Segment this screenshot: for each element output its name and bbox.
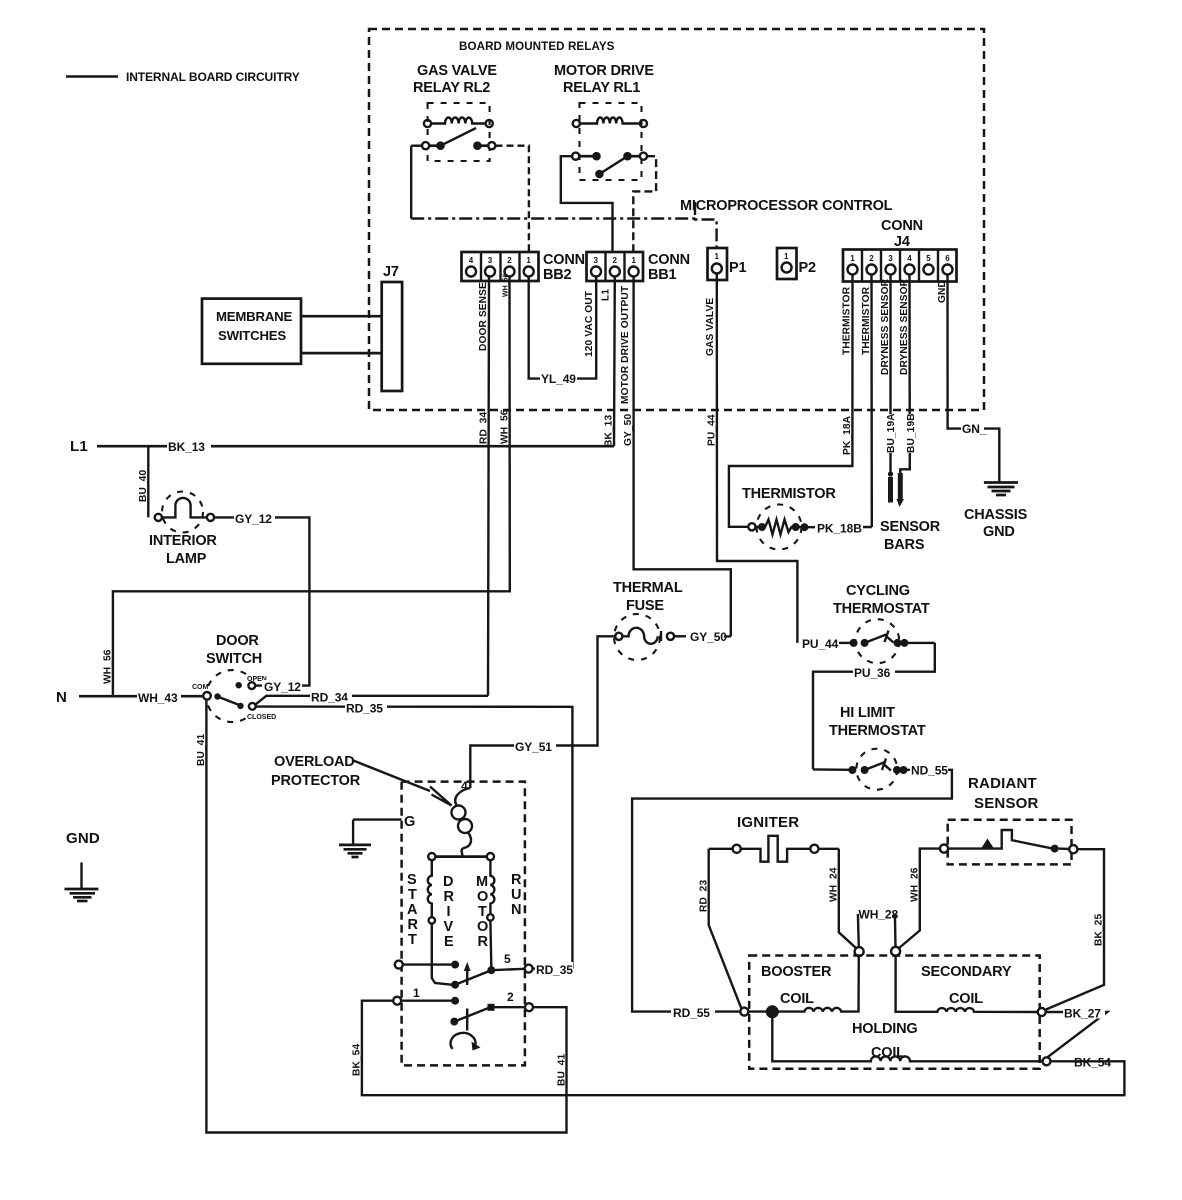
svg-text:BU_19A: BU_19A	[886, 413, 897, 453]
svg-text:PU_36: PU_36	[854, 666, 891, 680]
svg-text:4: 4	[907, 254, 912, 263]
connector P1	[708, 248, 747, 280]
svg-text:GY_12: GY_12	[235, 512, 272, 526]
wire label BU_19A rotated	[884, 413, 897, 453]
gas valve input terminal	[740, 1008, 748, 1016]
wire BK_54 motor switch 1 to holding coil	[362, 1001, 1125, 1095]
label CYCLING THERMOSTAT	[833, 583, 930, 617]
wire label RD_35 at motor	[535, 962, 573, 977]
svg-text:HI LIMIT: HI LIMIT	[840, 705, 895, 721]
holding coil	[772, 1018, 1042, 1061]
svg-text:DOOR SENSE: DOOR SENSE	[478, 282, 489, 351]
label CHASSIS GND	[964, 507, 1028, 540]
svg-text:4: 4	[469, 256, 474, 265]
svg-text:5: 5	[504, 952, 511, 966]
svg-text:6: 6	[945, 254, 950, 263]
wire WH_24 igniter to coil junction A	[839, 849, 857, 949]
svg-text:WH_28: WH_28	[859, 908, 899, 922]
wire ND_55 to RD_55 long run	[632, 770, 952, 1012]
motor dashed box	[402, 782, 525, 1066]
relay RL2 contact switch	[422, 128, 495, 150]
wire YL_49 RL2 right contact down to CONN BB2 pin 1	[496, 146, 529, 252]
svg-text:SWITCH: SWITCH	[206, 651, 262, 667]
svg-text:GY_50: GY_50	[690, 630, 727, 644]
svg-text:BK_27: BK_27	[1064, 1007, 1101, 1021]
svg-text:BU_19B: BU_19B	[906, 413, 917, 453]
igniter element	[709, 836, 839, 862]
interior lamp	[155, 492, 214, 533]
wire GY_51 fuse to overload protector	[470, 636, 615, 788]
chassis ground symbol	[984, 483, 1018, 496]
svg-text:BK_54: BK_54	[1074, 1056, 1111, 1070]
svg-text:1: 1	[526, 256, 531, 265]
wire PK_18B J4 pin2 down to thermistor right	[870, 274, 873, 527]
wire label BK_27	[1063, 1006, 1105, 1021]
wire N line WH_43 to door switch COM	[79, 695, 203, 698]
svg-text:GAS VALVE: GAS VALVE	[417, 63, 497, 79]
svg-text:BOOSTER: BOOSTER	[761, 964, 832, 980]
svg-text:WH_56: WH_56	[103, 649, 114, 684]
ground symbol at G	[339, 845, 371, 857]
svg-text:CHASSIS: CHASSIS	[964, 507, 1028, 523]
svg-text:MOTOR DRIVE OUTPUT: MOTOR DRIVE OUTPUT	[620, 285, 631, 404]
motor switch contact 1 row	[393, 986, 459, 1005]
connector CONN BB2	[462, 252, 585, 283]
wire GY_50 BB1 pin1 down to thermal fuse	[634, 276, 731, 636]
svg-text:MEMBRANE: MEMBRANE	[216, 309, 292, 324]
svg-text:2: 2	[507, 256, 512, 265]
svg-text:RD_35: RD_35	[536, 963, 573, 977]
wire WH_26 radiant sensor to coil junction B	[899, 849, 940, 949]
svg-text:CYCLING: CYCLING	[846, 583, 910, 599]
node BK_27 terminal	[1038, 1008, 1046, 1016]
svg-text:PK_18B: PK_18B	[817, 522, 862, 536]
wire BU_40 junction L1 down to interior lamp	[147, 446, 149, 517]
wire label GY_51	[514, 739, 556, 754]
svg-text:L1: L1	[601, 289, 612, 301]
box MEMBRANE SWITCHES	[202, 299, 301, 364]
wire label BK_13 on L1 line	[167, 439, 211, 454]
svg-text:SECONDARY: SECONDARY	[921, 964, 1012, 980]
svg-text:P1: P1	[729, 260, 746, 276]
svg-text:2: 2	[613, 256, 618, 265]
svg-text:HOLDING: HOLDING	[852, 1021, 917, 1037]
wire WH_28 stubs	[858, 914, 896, 947]
svg-text:WH_43: WH_43	[138, 691, 178, 705]
svg-text:IGNITER: IGNITER	[737, 814, 799, 831]
ground symbol left	[65, 862, 99, 901]
svg-text:L1: L1	[70, 438, 88, 455]
svg-text:RD_34: RD_34	[479, 412, 490, 444]
wire label RD_35	[345, 701, 387, 716]
svg-text:ND_55: ND_55	[911, 764, 948, 778]
node holding coil right terminal	[1043, 1057, 1051, 1065]
label OVERLOAD PROTECTOR	[271, 754, 361, 789]
motor switch contact C row	[395, 961, 459, 969]
svg-text:N: N	[56, 689, 67, 706]
svg-text:SENSOR: SENSOR	[880, 519, 941, 535]
wire label WH_43	[137, 690, 181, 705]
svg-text:CONN: CONN	[648, 252, 690, 268]
microprocessor control outer dashed box	[369, 29, 984, 410]
wire PU_44 from P1 down	[717, 274, 798, 643]
wire membrane switches to J7 lower	[301, 352, 382, 355]
wire RL1 left contact to CONN BB1 pin 2	[561, 156, 613, 252]
svg-text:BK_54: BK_54	[352, 1044, 363, 1076]
svg-text:WH_26: WH_26	[910, 867, 921, 902]
svg-text:BB2: BB2	[543, 267, 572, 283]
node B junction circle WH_28 right	[891, 947, 900, 956]
wire BK_13 BB1 pin2 down to L1 line	[613, 276, 616, 446]
overload protector	[452, 779, 473, 857]
radiant sensor	[940, 830, 1078, 853]
svg-text:J7: J7	[383, 264, 399, 280]
svg-text:BB1: BB1	[648, 267, 677, 283]
svg-text:RD_23: RD_23	[699, 880, 710, 912]
wire RL2 left contact to board edge	[411, 144, 422, 146]
relay RL1 contact switch	[572, 152, 647, 178]
svg-text:COIL: COIL	[949, 991, 983, 1007]
svg-text:1: 1	[413, 986, 420, 1000]
wire label BK_54 at coil	[1074, 1056, 1111, 1070]
cycling thermostat	[839, 619, 935, 663]
motor START winding	[428, 860, 452, 985]
svg-text:BU_41: BU_41	[196, 734, 207, 766]
svg-text:THERMISTOR: THERMISTOR	[842, 286, 853, 355]
label SENSOR BARS	[880, 519, 941, 553]
svg-text:THERMISTOR: THERMISTOR	[861, 286, 872, 355]
svg-text:PROTECTOR: PROTECTOR	[271, 773, 361, 789]
gas valve coils dashed box	[749, 956, 1039, 1069]
thermistor	[748, 505, 871, 550]
relay RL1 coil	[573, 117, 647, 127]
sensor bars electrodes	[888, 471, 904, 507]
svg-text:3: 3	[888, 254, 893, 263]
wire membrane switches to J7 upper	[301, 315, 382, 318]
svg-text:RD_35: RD_35	[346, 702, 383, 716]
wire label RD_34	[310, 690, 352, 705]
svg-text:J4: J4	[894, 234, 910, 250]
connector CONN J4	[843, 218, 957, 282]
svg-text:RD_34: RD_34	[311, 691, 348, 705]
motor rotation curl	[451, 1033, 476, 1049]
svg-text:G: G	[404, 814, 415, 830]
junction dot booster/holding	[766, 1005, 779, 1018]
svg-text:RELAY RL1: RELAY RL1	[563, 80, 640, 96]
svg-text:COM: COM	[192, 684, 209, 691]
svg-text:FUSE: FUSE	[626, 598, 664, 614]
svg-text:GY_51: GY_51	[515, 740, 552, 754]
svg-text:MOTOR: MOTOR	[476, 874, 489, 950]
svg-text:WH_56: WH_56	[503, 274, 510, 297]
svg-text:RELAY RL2: RELAY RL2	[413, 80, 490, 96]
svg-text:1: 1	[850, 254, 855, 263]
node A junction circle WH_28 left	[855, 947, 864, 956]
wire GN_ J4 pin6 to chassis ground	[948, 274, 962, 429]
svg-text:SWITCHES: SWITCHES	[218, 328, 286, 343]
wire label YL_49	[540, 371, 577, 386]
svg-text:1: 1	[715, 252, 720, 261]
connector J7	[382, 264, 402, 391]
svg-text:PU_44: PU_44	[707, 414, 718, 446]
wire L1 line BK_13	[97, 445, 614, 448]
svg-text:3: 3	[594, 256, 599, 265]
svg-text:MOTOR DRIVE: MOTOR DRIVE	[554, 63, 654, 79]
label THERMAL FUSE	[613, 580, 683, 614]
wire BU_41 from COM down and around to motor switch 2	[206, 700, 566, 1133]
svg-text:GND: GND	[937, 280, 948, 303]
svg-text:BU_40: BU_40	[138, 470, 149, 502]
svg-text:3: 3	[488, 256, 493, 265]
wire label PK_18B	[815, 520, 863, 536]
motor switch actuator arrow upper	[464, 962, 471, 985]
wire label GY_12 at door switch	[262, 680, 302, 694]
door switch	[192, 670, 276, 722]
wire PK_18A J4 pin1 to thermistor	[729, 274, 853, 527]
wire YL_49 BB2 pin1 to BB1 pin3	[529, 276, 597, 379]
label BOOSTER COIL	[761, 964, 832, 1007]
svg-text:BK_13: BK_13	[604, 415, 615, 447]
secondary coil	[896, 956, 1038, 1012]
relay RL1 coil dashed box	[580, 103, 642, 180]
wire J4 pin4 down to sensor bar right	[900, 274, 910, 474]
svg-text:INTERNAL BOARD CIRCUITRY: INTERNAL BOARD CIRCUITRY	[126, 70, 300, 84]
svg-text:GAS VALVE: GAS VALVE	[705, 298, 716, 356]
relay RL1 label MOTOR DRIVE RELAY RL1	[554, 63, 654, 96]
svg-text:BK_25: BK_25	[1094, 914, 1105, 946]
wire GY_50 label to corner	[724, 635, 731, 637]
wire RD_34 from BB2 pin3 DOOR SENSE down to door switch	[488, 276, 489, 696]
svg-text:LAMP: LAMP	[166, 551, 207, 567]
svg-text:120 VAC OUT: 120 VAC OUT	[584, 290, 595, 357]
svg-text:GY_12: GY_12	[264, 680, 301, 694]
svg-text:CLOSED: CLOSED	[247, 714, 276, 721]
svg-text:1: 1	[632, 256, 637, 265]
label RADIANT SENSOR	[968, 775, 1039, 812]
motor G terminal	[353, 814, 415, 844]
svg-text:DOOR: DOOR	[216, 633, 259, 649]
svg-text:2: 2	[869, 254, 874, 263]
svg-text:RADIANT: RADIANT	[968, 775, 1037, 792]
wire BK_27	[1046, 1012, 1108, 1058]
relay RL2 label GAS VALVE RELAY RL2	[413, 63, 497, 96]
svg-text:CONN: CONN	[881, 218, 923, 234]
svg-text:BOARD MOUNTED RELAYS: BOARD MOUNTED RELAYS	[459, 40, 615, 53]
motor top bar	[428, 853, 494, 860]
label DOOR SWITCH	[206, 633, 262, 667]
svg-text:DRYNESS SENSOR: DRYNESS SENSOR	[880, 278, 891, 375]
motor switch blade 2	[450, 990, 533, 1031]
booster coil	[748, 956, 859, 1012]
svg-text:THERMOSTAT: THERMOSTAT	[829, 723, 926, 739]
svg-text:5: 5	[926, 254, 931, 263]
wire PU_36 cycling to hi limit	[813, 643, 935, 770]
wire RD_34 from CLOSED contact to BB2 pin3 wire	[256, 696, 489, 705]
label HI LIMIT THERMOSTAT	[829, 705, 926, 739]
svg-text:THERMISTOR: THERMISTOR	[742, 486, 836, 502]
wire BK_25 radiant sensor to BK_27 node	[1046, 849, 1104, 1009]
relay RL2 coil dashed box	[428, 103, 490, 161]
svg-text:THERMOSTAT: THERMOSTAT	[833, 601, 930, 617]
motor RUN winding	[487, 860, 494, 967]
svg-text:RUN: RUN	[511, 872, 522, 918]
svg-text:GND: GND	[66, 830, 100, 847]
svg-text:GY_50: GY_50	[623, 414, 634, 446]
svg-text:YL_49: YL_49	[541, 372, 576, 386]
svg-text:PK_18A: PK_18A	[842, 415, 853, 455]
svg-text:WH_24: WH_24	[829, 867, 840, 902]
wire label GY_12 at lamp	[234, 511, 275, 526]
svg-text:GND: GND	[983, 524, 1015, 540]
overload protector pointer arrow	[352, 760, 452, 806]
wire GY_12 lamp to door switch OPEN	[214, 517, 309, 685]
svg-text:BK_13: BK_13	[168, 440, 205, 454]
wire RD_35 from CLOSED contact to motor switch 5	[256, 707, 573, 969]
svg-text:RD_55: RD_55	[673, 1006, 710, 1020]
wire label BU_19B rotated	[904, 413, 917, 453]
label INTERIOR LAMP	[149, 533, 217, 567]
label HOLDING COIL	[852, 1021, 917, 1061]
svg-text:COIL: COIL	[780, 991, 814, 1007]
svg-text:CONN: CONN	[543, 252, 585, 268]
wire label RD_55	[671, 1005, 715, 1020]
connector CONN BB1	[587, 252, 690, 283]
svg-text:WH_56: WH_56	[500, 409, 511, 444]
motor switch node 5	[487, 952, 572, 974]
svg-text:OVERLOAD: OVERLOAD	[274, 754, 355, 770]
wire label PU_36	[853, 665, 895, 680]
wire RL1 right contact to CONN BB1 pin 1	[633, 156, 656, 252]
svg-text:THERMAL: THERMAL	[613, 580, 683, 596]
svg-text:MICROPROCESSOR CONTROL: MICROPROCESSOR CONTROL	[680, 198, 893, 214]
relay board dash-dot outline	[411, 146, 716, 248]
radiant sensor dashed box	[948, 820, 1072, 865]
relay RL2 coil	[424, 118, 493, 128]
connector P2	[777, 248, 816, 279]
legend line: internal board circuitry	[66, 70, 300, 84]
svg-text:1: 1	[784, 252, 789, 261]
label SECONDARY COIL	[921, 964, 1012, 1007]
svg-text:DRYNESS SENSOR: DRYNESS SENSOR	[899, 278, 910, 375]
motor switch blade start-run	[451, 970, 491, 989]
svg-text:BU_41: BU_41	[557, 1054, 568, 1086]
svg-text:2: 2	[507, 990, 514, 1004]
wire RD_23 igniter to gas valve junction	[709, 849, 742, 1009]
svg-text:PU_44: PU_44	[802, 637, 839, 651]
svg-text:BARS: BARS	[884, 537, 925, 553]
wire WH_56 from BB2 pin2 down-left to N line	[113, 276, 510, 696]
svg-text:P2: P2	[799, 260, 816, 276]
svg-text:GN_: GN_	[962, 422, 987, 436]
wire J4 pin3 down to sensor bar left	[889, 274, 891, 473]
svg-text:INTERIOR: INTERIOR	[149, 533, 217, 549]
svg-text:SENSOR: SENSOR	[974, 795, 1039, 812]
hi limit thermostat	[813, 749, 910, 790]
thermal fuse	[614, 614, 686, 660]
